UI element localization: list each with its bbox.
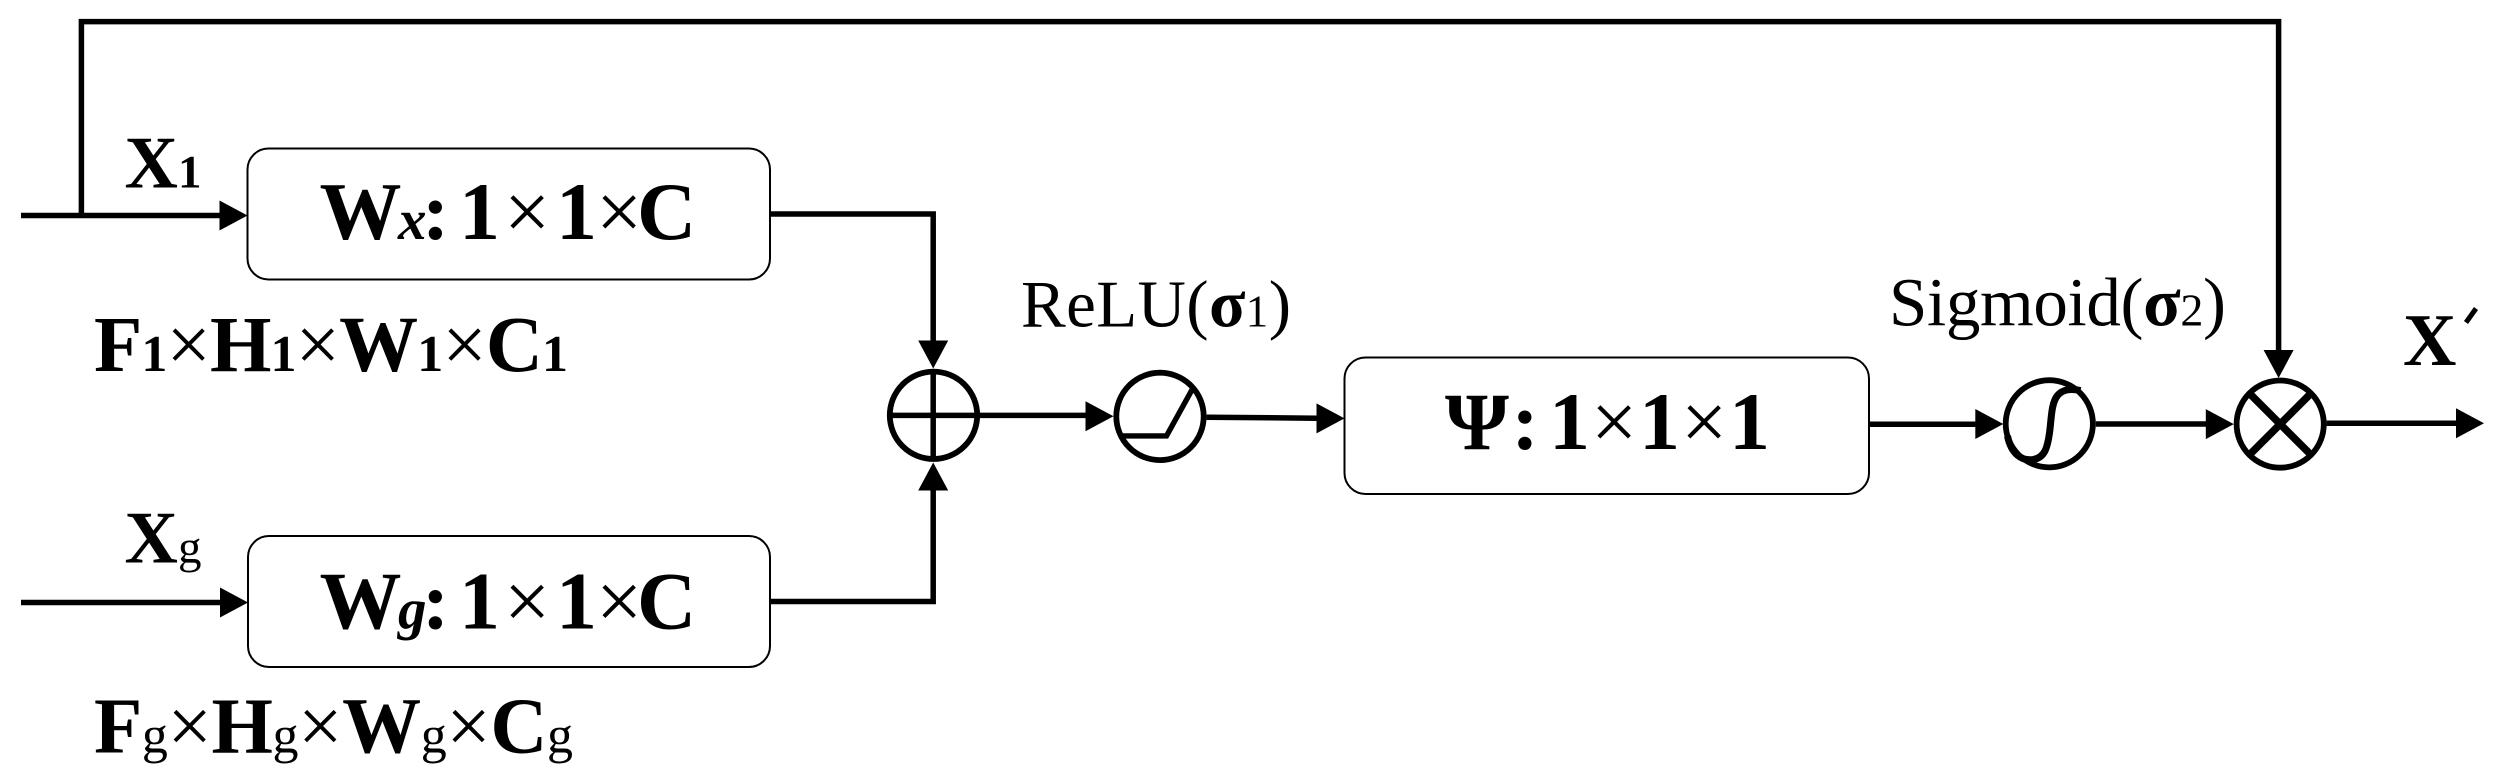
svg-text:Ψ:1×1×1: Ψ:1×1×1 [1445,376,1770,467]
svg-text:Sigmoid(σ2): Sigmoid(σ2) [1889,265,2226,341]
svg-text:X: X [2403,300,2456,382]
svg-text:Wx:1×1×C: Wx:1×1×C [320,166,697,257]
svg-text:Wg:1×1×C: Wg:1×1×C [320,556,697,647]
